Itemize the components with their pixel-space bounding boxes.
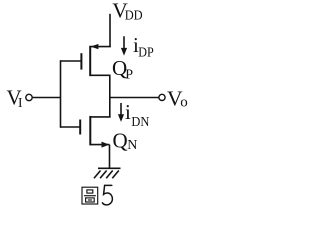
svg-text:o: o [180,95,188,111]
svg-text:P: P [125,68,133,83]
wire Qn source lead [90,144,109,146]
wire input spine [60,60,62,128]
current arrow iDN [118,103,124,122]
current arrow iDP [121,36,127,55]
wire Qp gate lead [61,60,82,62]
ground [94,168,121,178]
svg-text:I: I [18,95,23,110]
label VI [7,86,24,110]
transistor QN (NMOS) bars [80,116,90,145]
arrowhead Qn source (points right) [102,142,110,148]
svg-text:DN: DN [131,115,149,130]
svg-text:i: i [125,100,131,124]
wire Qp source lead [91,46,111,48]
wire VDD vertical [109,14,111,47]
wire right spine (drain-drain) [109,75,111,117]
node Vo terminal circle [159,94,165,100]
wire output lead [110,97,159,99]
label iDP [133,33,154,61]
svg-text:DD: DD [125,9,143,24]
svg-text:DP: DP [138,45,154,60]
label VDD [112,0,142,24]
label Vo [167,87,188,111]
transistor QP (PMOS) bars [81,46,90,76]
arrowhead Qp source (points left into channel) [91,44,99,49]
wire Qn drain lead [90,116,110,118]
wire Qn gate lead [61,126,81,128]
label iDN [125,100,149,130]
wire VI lead [33,97,61,99]
caption numeral 5 [102,185,112,205]
svg-text:N: N [127,138,137,153]
label QP [112,56,133,83]
node VI terminal circle [26,94,32,100]
caption glyph 圖 (drawn) [82,187,98,204]
label QN [113,129,138,153]
svg-text:Q: Q [113,129,128,153]
wire source to ground [109,145,111,169]
wire Qp drain lead [90,74,110,76]
